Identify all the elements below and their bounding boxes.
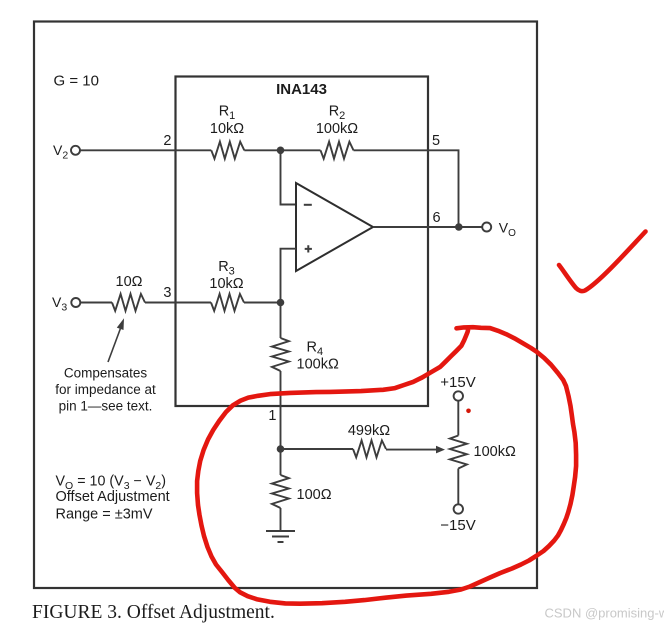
wire 100Ω to ground: [280, 508, 282, 531]
red annotation loop: [197, 327, 576, 604]
svg-text:100kΩ: 100kΩ: [297, 357, 339, 373]
svg-text:INA143: INA143: [276, 81, 327, 98]
svg-text:+15V: +15V: [440, 374, 475, 391]
junction node B (output): [455, 223, 463, 231]
svg-text:for impedance at: for impedance at: [55, 382, 156, 397]
svg-text:3: 3: [163, 285, 171, 301]
op-amp minus sign: [304, 204, 312, 206]
resistor R1: [211, 142, 244, 159]
resistor R3: [211, 294, 244, 311]
potentiometer 100kΩ: [450, 436, 467, 469]
wire potentiometer to -15V: [457, 469, 459, 505]
node -15V terminal: [454, 504, 463, 513]
resistor 10Ω (input compensation): [112, 294, 145, 311]
svg-text:R1: R1: [219, 104, 236, 123]
svg-text:Offset Adjustment: Offset Adjustment: [56, 489, 170, 505]
wire R4 through pin 1 to node D: [280, 371, 282, 449]
svg-text:10kΩ: 10kΩ: [209, 276, 243, 292]
wiper arrowhead: [436, 446, 445, 454]
red annotation dot: [466, 409, 471, 414]
svg-text:FIGURE 3. Offset Adjustment.: FIGURE 3. Offset Adjustment.: [32, 602, 275, 623]
wire V3 to 10 ohm resistor: [80, 302, 112, 304]
svg-text:G = 10: G = 10: [54, 73, 99, 90]
wire +15V to potentiometer: [457, 401, 459, 435]
svg-text:R3: R3: [218, 259, 235, 278]
figure outer frame: [34, 22, 537, 589]
svg-text:−15V: −15V: [440, 517, 475, 534]
wire op-amp output to VO: [373, 226, 482, 228]
svg-text:100kΩ: 100kΩ: [474, 444, 516, 460]
wire non-inverting input: [281, 249, 297, 303]
svg-text:R4: R4: [307, 340, 324, 359]
svg-text:2: 2: [163, 133, 171, 149]
svg-text:5: 5: [432, 133, 440, 149]
svg-text:CSDN @promising-w: CSDN @promising-w: [545, 606, 664, 621]
resistor R4: [272, 338, 289, 371]
ground: [266, 531, 295, 542]
wire 499kΩ to wiper arrow: [386, 449, 437, 451]
IC boundary box U1 INA143: [176, 77, 429, 407]
svg-text:10kΩ: 10kΩ: [210, 121, 244, 137]
wire R2 to pin 5 corner: [354, 150, 459, 227]
svg-text:pin 1—see text.: pin 1—see text.: [59, 399, 153, 414]
red annotation checkmark: [559, 232, 646, 292]
op-amp plus sign: [305, 245, 312, 252]
svg-text:R2: R2: [329, 104, 346, 123]
junction node A (R1/R2/inverting input): [277, 147, 285, 155]
junction node C (non-inverting input / R4): [277, 299, 285, 307]
svg-text:Range = ±3mV: Range = ±3mV: [56, 507, 153, 523]
resistor 499kΩ: [353, 440, 386, 457]
wire junction C to R4: [280, 303, 282, 339]
svg-text:V2: V2: [53, 142, 68, 162]
node V3 terminal: [71, 298, 80, 307]
svg-text:10Ω: 10Ω: [116, 274, 143, 290]
svg-text:Compensates: Compensates: [64, 366, 148, 381]
svg-text:VO: VO: [499, 220, 516, 240]
resistor 100Ω: [272, 475, 289, 508]
svg-text:1: 1: [268, 408, 276, 424]
node +15V terminal: [454, 391, 463, 400]
resistor R2: [321, 142, 354, 159]
svg-text:499kΩ: 499kΩ: [348, 423, 390, 439]
wire node D to 499kΩ: [281, 448, 354, 450]
wire 10Ω to R3: [145, 302, 211, 304]
wire inverting input: [281, 150, 297, 204]
annotation arrow to 10Ω resistor: [108, 324, 122, 363]
svg-text:V3: V3: [52, 294, 67, 314]
wire node D to 100Ω: [280, 449, 282, 475]
wire R1 to R2: [244, 149, 320, 151]
junction node D (pin1 / 100Ω / 499kΩ): [277, 445, 285, 453]
svg-text:100Ω: 100Ω: [297, 487, 332, 503]
svg-text:6: 6: [433, 210, 441, 226]
svg-text:100kΩ: 100kΩ: [316, 121, 358, 137]
node V2 terminal: [71, 146, 80, 155]
wire V2 to R1: [80, 149, 211, 151]
op-amp U1: [296, 183, 373, 271]
node VO terminal: [482, 223, 491, 232]
wire R3 to junction: [244, 302, 281, 304]
